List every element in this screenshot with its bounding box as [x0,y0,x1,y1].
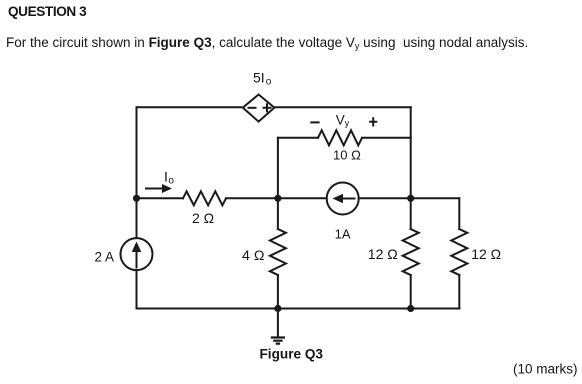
resistor 2 ohm [183,191,226,205]
svg-text:For the circuit shown in Figur: For the circuit shown in Figure Q3, calc… [6,35,528,51]
svg-text:2 A: 2 A [95,249,115,264]
wire top-left loop (left vertical upper) [136,107,138,198]
current source 2A (circle with up arrow) [121,238,153,270]
junction node (ground / bottom rail) [274,305,281,312]
wire left vertical above 2A source [136,198,138,238]
wire top rail left of source [137,106,242,108]
resistor 4 ohm [270,229,286,275]
svg-text:(10 marks): (10 marks) [513,361,578,376]
svg-text:12 Ω: 12 Ω [368,246,398,262]
current arrow Io [146,184,172,193]
current source 1A (circle with left arrow) [327,183,359,215]
minus sign inside source [249,107,256,109]
plus sign inside source [264,104,271,111]
svg-text:QUESTION 3: QUESTION 3 [8,4,87,19]
wire 12-ohm branch upper [410,198,412,229]
resistor 10 ohm [318,130,362,145]
resistor 12 ohm (right) [451,229,467,275]
svg-text:10 Ω: 10 Ω [333,148,361,163]
svg-text:4 Ω: 4 Ω [242,248,264,264]
wire far-right branch upper (corner) [458,198,460,229]
junction node (left rail / middle rail) [133,195,140,202]
label plus (Vy polarity) [370,118,376,125]
wire 10-ohm branch vertical [277,138,279,199]
wire right vertical (top rail to middle rail) [410,107,412,198]
wire 4-ohm branch upper [277,198,279,229]
wire middle rail center segment [226,197,327,199]
junction node (12-ohm bottom) [407,305,414,312]
junction node (4-ohm top) [274,195,281,202]
svg-text:1A: 1A [335,226,351,241]
wire 4-ohm branch lower [277,275,279,309]
wire 10-ohm branch right segment [362,137,411,139]
label minus (Vy polarity) [311,121,318,123]
wire 10-ohm branch left segment [278,137,318,139]
wire left vertical below 2A source [136,270,138,308]
svg-text:Figure Q3: Figure Q3 [260,347,324,362]
svg-text:2 Ω: 2 Ω [192,210,214,226]
wire far-right branch lower [458,275,460,309]
svg-text:5Io: 5Io [253,69,272,87]
wire bottom rail [137,308,460,310]
svg-text:Io: Io [164,169,174,187]
wire middle rail left segment [137,197,184,199]
junction node (12-ohm top) [407,195,414,202]
ground [271,309,285,344]
wire middle rail right segment [359,197,460,199]
resistor 12 ohm (left) [403,229,419,275]
dependent voltage source 5Io (diamond) [243,95,275,122]
wire top rail right of source [274,106,410,108]
wire 12-ohm branch lower [410,275,412,309]
svg-text:Vy: Vy [336,112,350,128]
svg-text:12 Ω: 12 Ω [471,246,501,262]
